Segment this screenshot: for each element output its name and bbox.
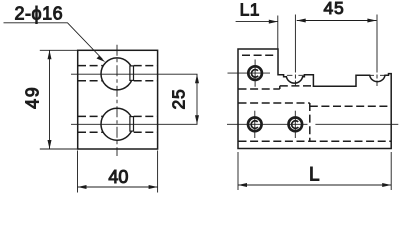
screw hole U2 outer bbox=[248, 118, 262, 132]
front view block outline bbox=[78, 50, 158, 149]
center line lower bore right segment bbox=[315, 123, 398, 125]
center line lower bore left segment bbox=[227, 123, 308, 125]
hidden line upper bore top tangent bbox=[78, 65, 157, 67]
dimension L1 line bbox=[236, 21, 278, 23]
dimension 49 arrows bbox=[48, 50, 52, 149]
svg-text:2-ϕ16: 2-ϕ16 bbox=[15, 3, 64, 23]
label 2-phi16 leader arrowhead bbox=[97, 56, 106, 62]
hidden line pocket upper right bbox=[310, 105, 391, 107]
screw hole U1 outer bbox=[248, 66, 262, 80]
screw hole U3 outer bbox=[289, 118, 303, 132]
screw hole U3 thread arc bbox=[292, 121, 299, 129]
label 2-phi16 leader line bbox=[4, 23, 103, 59]
keyway slot lower bbox=[130, 117, 134, 132]
dimension 25 line bbox=[196, 74, 198, 124]
hole bore lower circle bbox=[101, 108, 133, 140]
svg-text:L: L bbox=[309, 165, 320, 186]
dimension 40 arrows bbox=[78, 185, 158, 189]
svg-text:49: 49 bbox=[23, 86, 43, 109]
keyway slot upper bbox=[130, 66, 134, 81]
svg-text:L1: L1 bbox=[240, 0, 260, 19]
hidden line pocket bottom bbox=[239, 140, 392, 142]
dimension L arrows bbox=[238, 183, 391, 187]
dimension L1 arrow bbox=[269, 20, 278, 24]
dimension 25 arrows bbox=[195, 74, 199, 124]
groove 2 center line horizontal dash bbox=[369, 74, 386, 76]
screw hole U1 center cross bbox=[228, 60, 271, 87]
svg-text:25: 25 bbox=[169, 88, 189, 109]
hidden line upper bore bottom tangent bbox=[78, 80, 157, 82]
hidden line under boss bbox=[239, 86, 314, 89]
hidden line pocket left wall bbox=[309, 103, 311, 141]
dimension 40 line bbox=[78, 186, 158, 188]
dimension L line bbox=[238, 184, 391, 186]
center line vertical through holes bbox=[116, 45, 118, 156]
hidden line pocket upper left bbox=[239, 102, 310, 104]
svg-text:45: 45 bbox=[323, 0, 344, 18]
dimension 45 line bbox=[297, 20, 377, 22]
groove 1 center line vertical bbox=[294, 15, 296, 88]
screw hole U2 thread arc bbox=[251, 121, 258, 129]
hole bore upper circle bbox=[101, 58, 133, 90]
hidden line lower bore top tangent bbox=[78, 115, 157, 117]
screw hole U1 thread arc bbox=[251, 70, 258, 78]
dimension 45 arrows bbox=[297, 19, 377, 23]
dimension 49 line bbox=[49, 50, 51, 149]
dimension L1 extension line bbox=[277, 16, 279, 50]
screw hole U3 center cross vertical bbox=[294, 111, 296, 138]
groove 1 center line horizontal dash bbox=[287, 74, 304, 76]
center line horizontal upper hole bbox=[71, 73, 198, 75]
dimension 49 extension lines bbox=[40, 50, 78, 149]
groove 2 center line vertical bbox=[376, 15, 378, 88]
center line horizontal lower hole bbox=[71, 123, 198, 125]
screw hole U2 center cross vertical bbox=[254, 111, 256, 138]
dimension 40 extension lines bbox=[78, 151, 158, 193]
hidden line lower bore bottom tangent bbox=[78, 131, 157, 133]
svg-text:40: 40 bbox=[108, 167, 128, 187]
dimension L extension lines bbox=[238, 152, 391, 190]
hidden line in boss bbox=[242, 54, 277, 56]
side view block outline bbox=[238, 49, 391, 149]
